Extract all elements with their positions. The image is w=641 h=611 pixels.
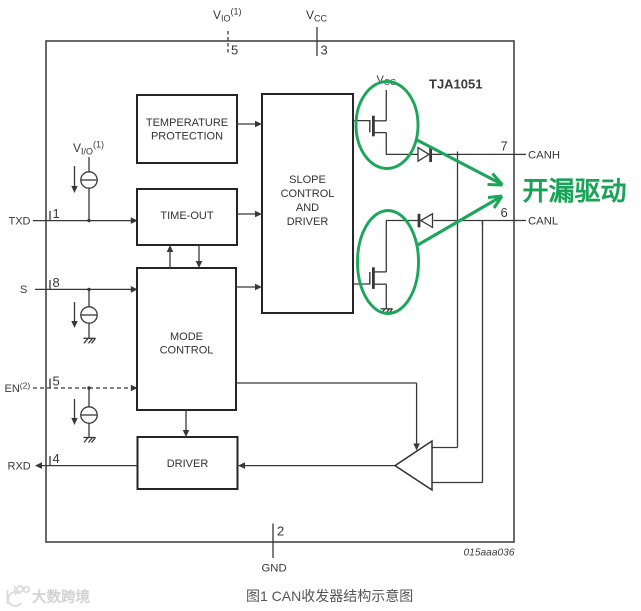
wire TIME-OUT to MODE CONTROL (down arrow) <box>196 245 203 268</box>
svg-text:CANL: CANL <box>528 215 558 227</box>
pin number 7 <box>501 139 508 154</box>
svg-text:6: 6 <box>501 205 508 220</box>
annotation 开漏驱动 <box>523 176 627 206</box>
current source I2 (S pull-up) <box>81 288 97 339</box>
svg-text:4: 4 <box>53 451 60 466</box>
wire D1 to CANH pin <box>432 153 514 155</box>
wire CANL node to receiver input <box>432 221 483 483</box>
svg-text:TJA1051: TJA1051 <box>429 77 482 92</box>
wire TEMPERATURE PROTECTION to SLOPE CONTROL <box>237 121 262 128</box>
block SLOPE CONTROL AND DRIVER <box>262 94 353 313</box>
pin 1 TXD wire <box>33 211 138 224</box>
svg-text:SLOPE: SLOPE <box>289 174 326 186</box>
label VIO(1) <box>213 7 242 24</box>
ground (under I3) <box>84 438 96 443</box>
block MODE CONTROL <box>137 268 236 410</box>
IC boundary box <box>46 41 514 542</box>
transistor Q1 (high-side MOSFET) <box>353 90 386 154</box>
pin number 6 <box>501 205 508 220</box>
pin number 8 <box>53 275 60 290</box>
svg-text:CONTROL: CONTROL <box>281 188 335 200</box>
pin 7 CANH stub <box>514 153 526 155</box>
svg-text:5: 5 <box>53 374 60 389</box>
svg-text:TEMPERATURE: TEMPERATURE <box>146 117 228 129</box>
label CANH <box>528 149 560 161</box>
ground (Q2 source) <box>381 309 393 314</box>
wire MODE CONTROL to TIME-OUT (up arrow) <box>167 245 174 268</box>
svg-text:大数跨境: 大数跨境 <box>32 588 90 606</box>
pin 6 CANL stub <box>514 220 526 222</box>
pin 5 EN wire (dashed) <box>33 379 138 392</box>
pin 4 RXD wire <box>35 456 138 469</box>
diode D1 (CANH series) <box>386 147 431 162</box>
svg-text:开漏驱动: 开漏驱动 <box>523 176 627 206</box>
I1 direction arrow <box>71 166 77 193</box>
label TJA1051 <box>429 77 482 92</box>
pin number 4 <box>53 451 60 466</box>
wire CANH node to receiver input <box>432 152 458 448</box>
highlight ellipse around Q1 <box>356 82 418 169</box>
watermark text 大数跨境 <box>32 588 90 606</box>
wire TIME-OUT to SLOPE CONTROL <box>237 211 262 218</box>
label S <box>20 284 27 296</box>
pin number 5 (top) <box>231 43 238 58</box>
green arrow from Q1 to annotation <box>417 140 503 185</box>
svg-text:3: 3 <box>321 43 328 58</box>
transistor Q1 Vcc label <box>377 74 397 87</box>
svg-text:DRIVER: DRIVER <box>167 458 209 470</box>
svg-text:5: 5 <box>231 43 238 58</box>
svg-text:1: 1 <box>53 206 60 221</box>
wire Q2 drain to D2 <box>386 220 419 222</box>
svg-text:S: S <box>20 284 27 296</box>
label EN(2) <box>5 380 31 395</box>
wire MODE CONTROL to DRIVER (down arrow) <box>183 410 190 437</box>
I3 direction arrow <box>71 399 77 425</box>
svg-text:CANH: CANH <box>528 149 560 161</box>
label GND <box>262 563 287 575</box>
svg-text:EN(2): EN(2) <box>5 380 31 395</box>
wire D2 to CANL pin <box>434 220 515 222</box>
svg-text:RXD: RXD <box>8 460 31 472</box>
pin 5 VIO lead (dashed) <box>227 31 229 55</box>
I2 direction arrow <box>71 302 77 328</box>
svg-text:PROTECTION: PROTECTION <box>151 131 223 143</box>
label VCC <box>306 8 328 24</box>
green arrow from Q2 to annotation <box>416 196 502 246</box>
wire MODE CONTROL to SLOPE CONTROL <box>236 284 262 291</box>
pin number 1 <box>53 206 60 221</box>
svg-text:CONTROL: CONTROL <box>160 345 214 357</box>
svg-text:TXD: TXD <box>9 215 31 227</box>
svg-text:TIME-OUT: TIME-OUT <box>160 210 213 222</box>
svg-text:AND: AND <box>296 202 319 214</box>
svg-text:DRIVER: DRIVER <box>287 216 329 228</box>
wire receiver output to DRIVER <box>238 462 395 469</box>
svg-text:VIO(1): VIO(1) <box>213 7 242 24</box>
block DRIVER <box>138 437 238 489</box>
pin number 5 (EN) <box>53 374 60 389</box>
watermark logo <box>8 586 30 606</box>
receiver comparator <box>395 441 432 490</box>
highlight ellipse around Q2 <box>358 211 419 314</box>
svg-text:GND: GND <box>262 563 287 575</box>
svg-text:015aaa036: 015aaa036 <box>464 547 515 558</box>
label TXD <box>9 215 31 227</box>
svg-text:7: 7 <box>501 139 508 154</box>
block TIME-OUT <box>137 189 237 245</box>
current source I3 (EN pull-up) <box>81 386 97 437</box>
pin 3 VCC lead <box>316 27 318 56</box>
transistor Q2 (low-side MOSFET) <box>353 221 386 309</box>
caption 图1 CAN收发器结构示意图 <box>246 588 413 604</box>
svg-text:图1 CAN收发器结构示意图: 图1 CAN收发器结构示意图 <box>246 588 413 604</box>
svg-text:8: 8 <box>53 275 60 290</box>
svg-text:MODE: MODE <box>170 331 203 343</box>
label 015aaa036 <box>464 547 515 558</box>
pin number 2 <box>277 524 284 539</box>
pin 2 GND lead <box>272 524 274 559</box>
wire MODE CONTROL to receiver enable <box>236 383 420 451</box>
label RXD <box>8 460 31 472</box>
current source I1 (TXD pull-up) <box>81 157 97 222</box>
pin number 3 <box>321 43 328 58</box>
label CANL <box>528 215 558 227</box>
label VI/O(1) <box>73 140 104 157</box>
pin 8 S wire <box>35 280 138 293</box>
svg-text:VCC: VCC <box>306 8 328 24</box>
diode D2 (CANL series) <box>419 214 433 228</box>
block TEMPERATURE PROTECTION <box>137 95 237 163</box>
svg-text:2: 2 <box>277 524 284 539</box>
ground (under I2) <box>84 338 96 343</box>
